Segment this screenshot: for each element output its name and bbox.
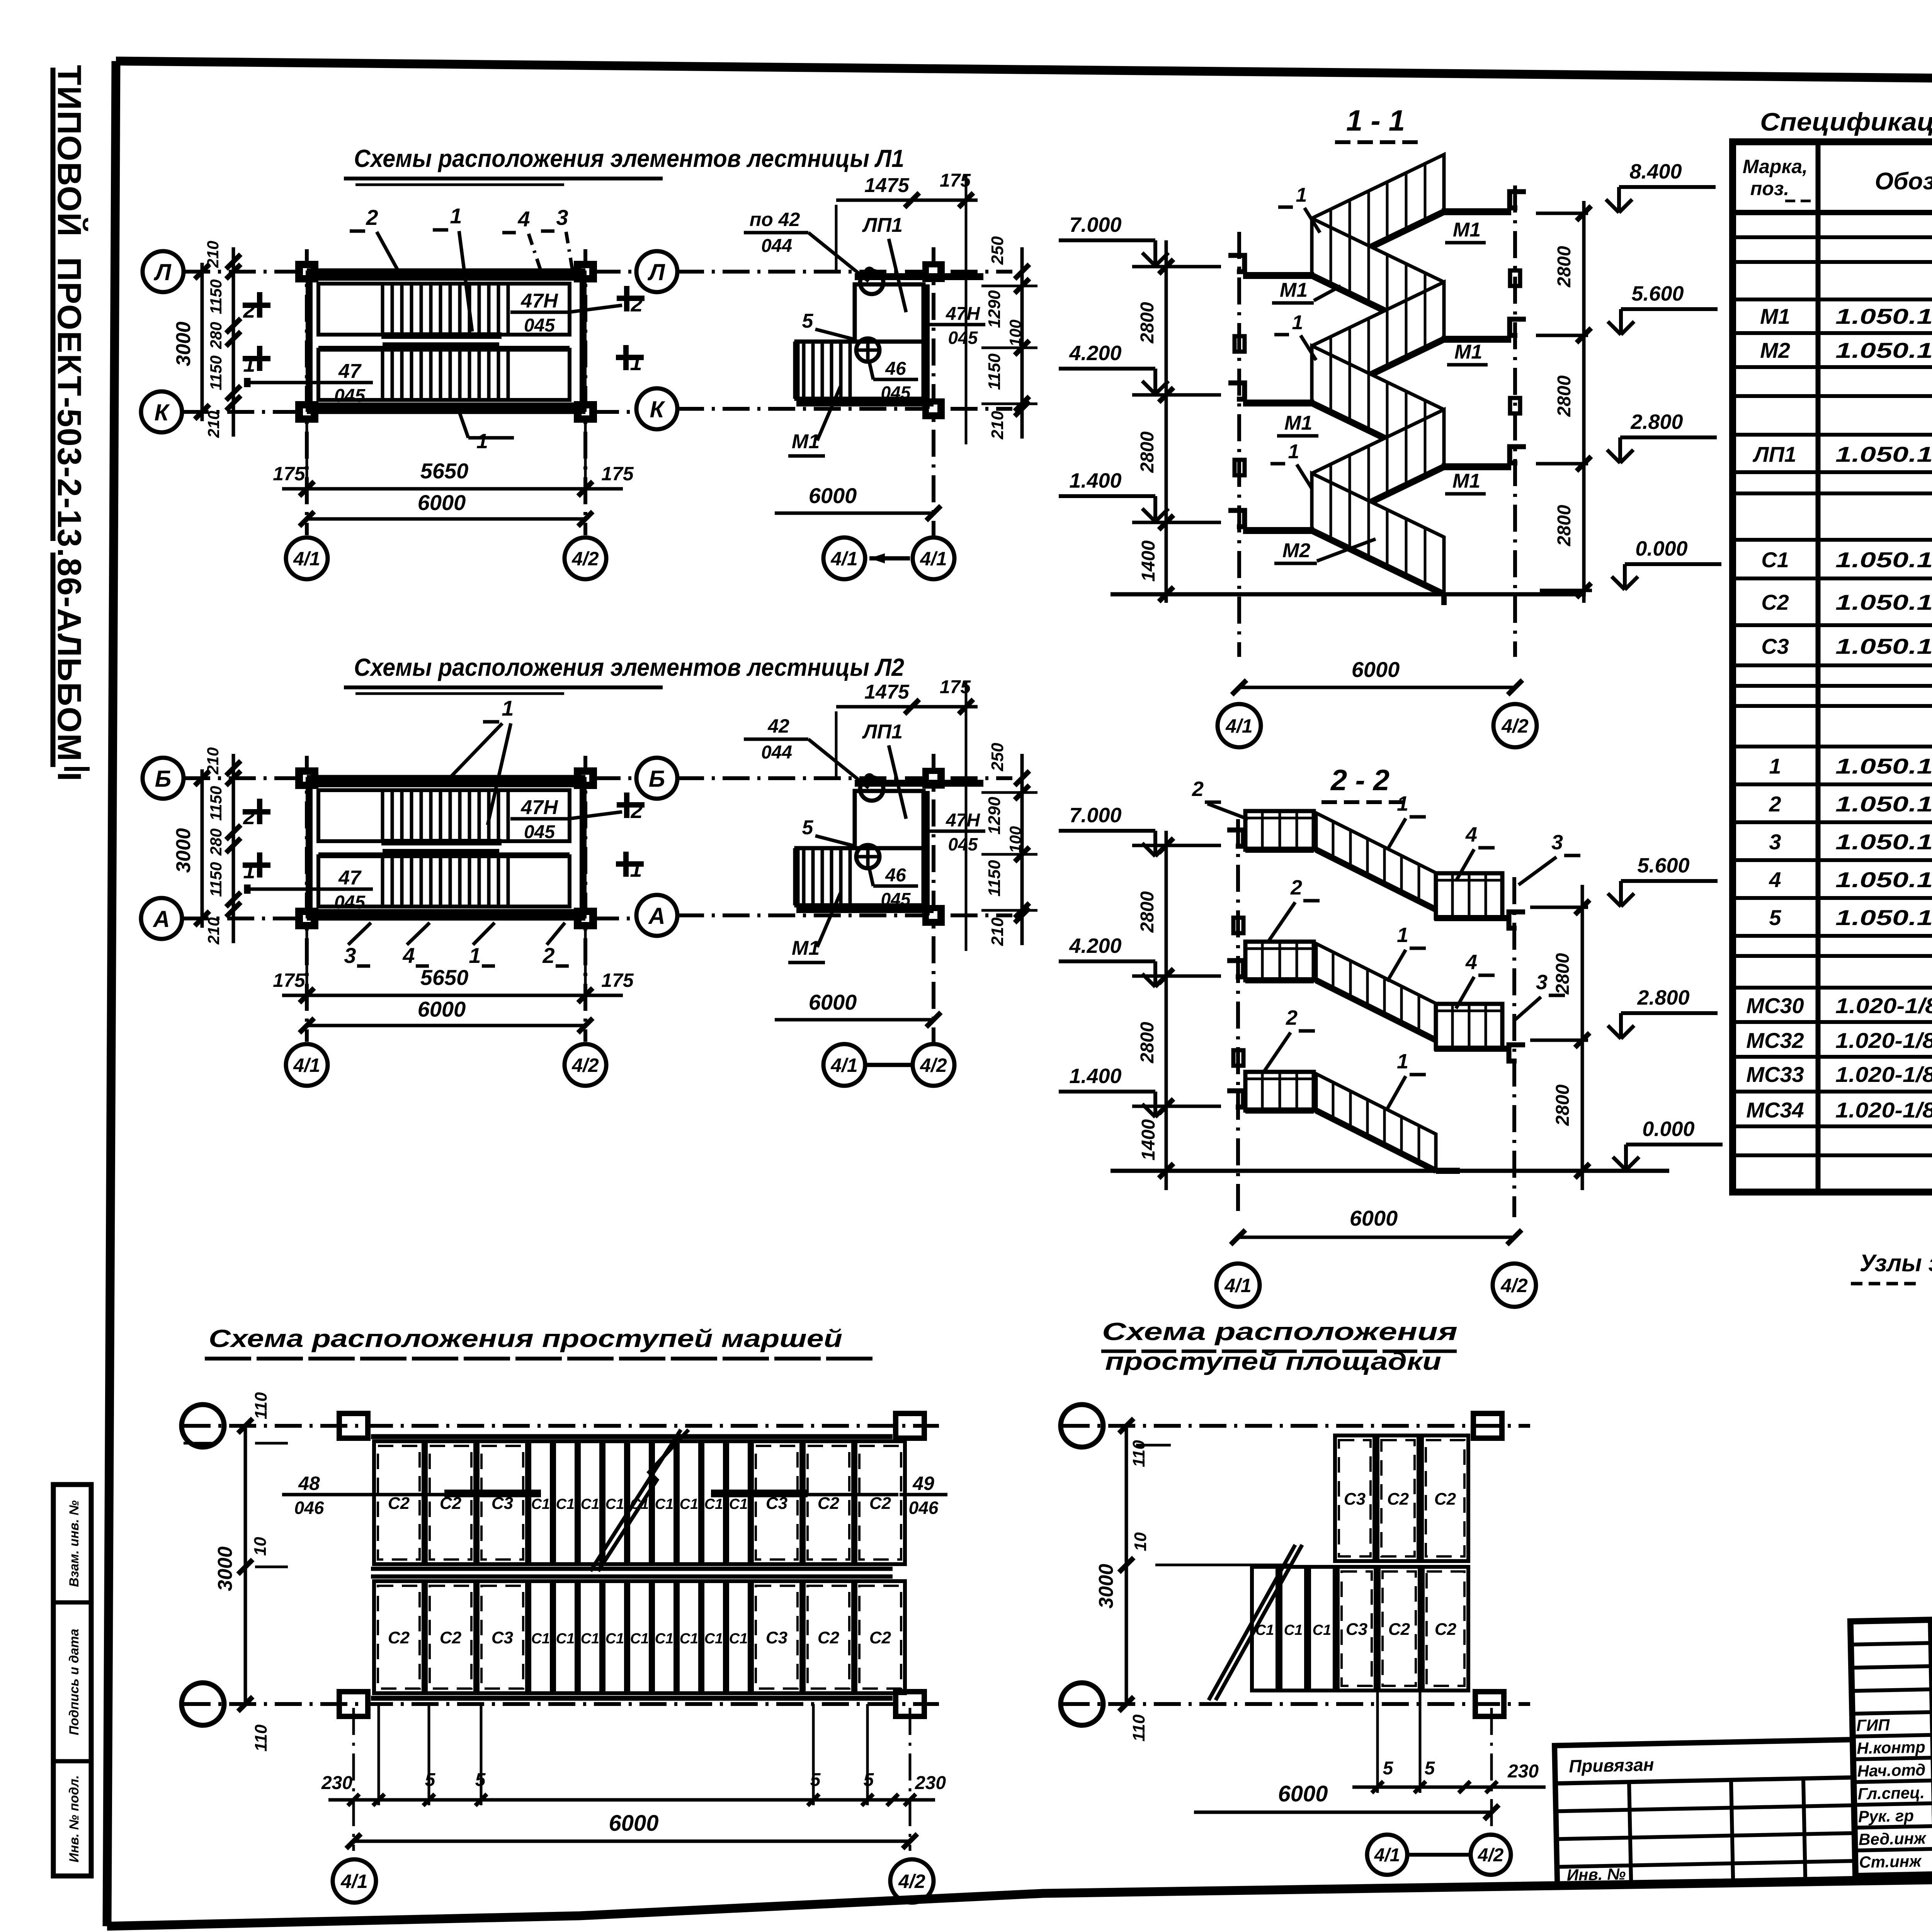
svg-text:МС33: МС33	[1746, 1062, 1804, 1087]
svg-text:045: 045	[881, 383, 911, 403]
svg-text:1: 1	[450, 204, 462, 228]
svg-text:2 - 2: 2 - 2	[1330, 764, 1389, 797]
section 1-1 dim 6000	[1239, 686, 1515, 689]
svg-text:4: 4	[1769, 867, 1781, 892]
bottom dim chain	[1352, 1786, 1546, 1789]
svg-text:Спецификация к схемам располож: Спецификация к схемам расположения элеме…	[1760, 107, 1932, 136]
svg-text:3000: 3000	[172, 321, 195, 366]
svg-text:7.000: 7.000	[1069, 804, 1121, 827]
axis circle 4/1	[1367, 1835, 1407, 1875]
stair plan L2 axis А line	[182, 917, 634, 920]
svg-text:5: 5	[864, 1770, 874, 1790]
svg-text:С1: С1	[531, 1496, 550, 1512]
stair plan L1 axis К line	[182, 410, 634, 414]
svg-text:47Н: 47Н	[946, 810, 980, 831]
landing plan L2 axis Б	[677, 776, 1012, 780]
svg-text:210: 210	[204, 917, 223, 945]
bottom dim 175-5650-175	[282, 994, 623, 997]
lower flight outline	[318, 350, 570, 400]
tread band top	[374, 1441, 423, 1564]
svg-text:175: 175	[601, 969, 634, 991]
flight M1 4.2-2.8 with railing	[1312, 346, 1444, 467]
svg-text:4/1: 4/1	[293, 1054, 320, 1076]
axis 4/1 vertical line	[1237, 232, 1241, 657]
svg-text:4/1: 4/1	[830, 548, 858, 570]
svg-text:1150: 1150	[207, 786, 225, 821]
svg-text:4: 4	[402, 943, 415, 968]
svg-text:1: 1	[630, 350, 642, 375]
svg-text:Взам. инв. №: Взам. инв. №	[67, 1500, 82, 1587]
node circle mid with cross	[856, 338, 879, 362]
svg-text:1.050.1-2 вып.2: 1.050.1-2 вып.2	[1835, 830, 1932, 854]
svg-text:230: 230	[321, 1773, 352, 1793]
svg-text:С1: С1	[1761, 548, 1789, 572]
svg-text:6000: 6000	[418, 490, 466, 515]
svg-text:М1: М1	[1280, 279, 1308, 301]
svg-text:230: 230	[915, 1773, 946, 1793]
svg-text:4/1: 4/1	[1374, 1845, 1400, 1866]
svg-text:ЛП1: ЛП1	[862, 721, 903, 743]
svg-text:1150: 1150	[207, 355, 225, 390]
svg-text:М1: М1	[1452, 470, 1480, 492]
tread band bottom	[374, 1581, 423, 1693]
svg-text:Узлы замаркированы по серии: Узлы замаркированы по серии 1.020-1/83 в…	[1860, 1250, 1932, 1277]
svg-text:2: 2	[1192, 777, 1204, 801]
svg-text:6000: 6000	[418, 997, 466, 1021]
svg-text:5: 5	[425, 1770, 436, 1790]
axis circles 4/1 arrow 4/1	[823, 537, 865, 579]
landings left	[1243, 272, 1314, 279]
svg-text:110: 110	[1129, 1714, 1148, 1742]
svg-text:210: 210	[988, 411, 1007, 440]
svg-text:2.800: 2.800	[1637, 986, 1689, 1009]
svg-text:5: 5	[1425, 1758, 1435, 1779]
svg-text:2: 2	[243, 298, 255, 322]
svg-text:4: 4	[1465, 823, 1477, 846]
axis circle 4/1 bottom	[286, 537, 328, 579]
svg-text:С1: С1	[704, 1496, 723, 1512]
svg-text:С1: С1	[605, 1496, 624, 1512]
svg-text:5650: 5650	[420, 965, 469, 990]
axis circle 4/2 (2-2)	[1493, 1264, 1536, 1307]
svg-text:С3: С3	[492, 1628, 513, 1647]
left dim chain 2800 2800 1400	[1165, 240, 1168, 603]
break line diagonal	[590, 1430, 681, 1571]
svg-text:47Н: 47Н	[520, 796, 558, 819]
svg-text:250: 250	[988, 236, 1007, 265]
svg-text:М1: М1	[792, 937, 820, 959]
svg-text:Гл.спец.: Гл.спец.	[1857, 1783, 1925, 1803]
svg-text:1.050.1-2 вып.2: 1.050.1-2 вып.2	[1835, 754, 1932, 778]
svg-text:280: 280	[207, 828, 225, 856]
svg-text:Марка,: Марка,	[1743, 156, 1808, 177]
axis line top	[1063, 1424, 1530, 1428]
upper flight treads	[381, 284, 384, 335]
svg-text:045: 045	[524, 315, 555, 336]
row 1 flight 7.0-5.6 with railings 2,1,4,3	[1245, 811, 1314, 850]
svg-text:С1: С1	[729, 1496, 748, 1512]
dim 3000 line	[201, 263, 204, 421]
svg-text:1.050.1-2 вып.2: 1.050.1-2 вып.2	[1835, 792, 1932, 816]
svg-text:6000: 6000	[809, 990, 857, 1014]
svg-text:2800: 2800	[1137, 302, 1158, 344]
axis circle top-left (blank)	[1061, 1405, 1103, 1447]
svg-text:2: 2	[542, 943, 554, 968]
svg-text:1.050.1-2 вып.1: 1.050.1-2 вып.1	[1835, 304, 1932, 328]
svg-text:Ст.инж: Ст.инж	[1859, 1852, 1922, 1871]
svg-text:С2: С2	[818, 1628, 840, 1647]
svg-text:4.200: 4.200	[1069, 342, 1121, 365]
svg-text:3: 3	[556, 205, 568, 230]
svg-text:100: 100	[1006, 826, 1024, 853]
svg-text:10: 10	[251, 1537, 270, 1556]
column marks	[925, 770, 942, 786]
svg-text:Рук. гр: Рук. гр	[1858, 1806, 1914, 1826]
svg-text:4/2: 4/2	[571, 1054, 599, 1076]
svg-text:1.020-1/83 вып. 6-1: 1.020-1/83 вып. 6-1	[1835, 1028, 1932, 1053]
svg-text:МС34: МС34	[1746, 1098, 1804, 1122]
svg-text:2: 2	[630, 292, 643, 316]
svg-text:С1: С1	[655, 1631, 674, 1647]
wall right thick	[922, 284, 930, 409]
extension verticals	[1376, 1692, 1379, 1793]
extension verticals below	[378, 1704, 380, 1805]
svg-text:044: 044	[761, 742, 792, 763]
svg-text:К: К	[650, 396, 666, 422]
svg-text:1.050.1-2 вып.2: 1.050.1-2 вып.2	[1835, 867, 1932, 892]
stair plan L1 axis Л line	[183, 270, 634, 274]
top wall thick	[855, 780, 983, 787]
svg-text:1: 1	[243, 859, 255, 883]
section mark 2 left	[243, 809, 270, 815]
svg-text:3: 3	[344, 943, 356, 968]
svg-text:1: 1	[476, 430, 488, 453]
svg-text:2: 2	[1286, 1006, 1298, 1029]
section mark 2 right	[617, 296, 645, 301]
flight M1 4.2-5.6 with railing 1	[1312, 282, 1444, 403]
left dim chain line	[232, 754, 235, 943]
axis 4/2 vertical	[932, 754, 935, 1044]
upper flight outline	[318, 284, 570, 335]
svg-text:2800: 2800	[1137, 891, 1158, 933]
svg-text:5650: 5650	[420, 459, 469, 483]
svg-text:поз.: поз.	[1750, 178, 1789, 199]
svg-text:1.050.1-2 вып.1: 1.050.1-2 вып.1	[1835, 442, 1932, 466]
svg-text:Обозначение: Обозначение	[1875, 168, 1932, 195]
svg-text:47Н: 47Н	[946, 304, 980, 324]
svg-text:С3: С3	[1761, 634, 1789, 658]
upper flight outline	[318, 790, 570, 841]
svg-text:1: 1	[1397, 1050, 1408, 1073]
svg-text:1.020-1/83 вып. 6-1: 1.020-1/83 вып. 6-1	[1835, 1098, 1932, 1122]
svg-text:1: 1	[1769, 754, 1781, 778]
svg-text:М1: М1	[1284, 412, 1312, 434]
svg-text:110: 110	[252, 1724, 270, 1752]
right dim chain 2800x3	[1582, 201, 1586, 603]
svg-text:044: 044	[761, 236, 792, 256]
axis circle 4/1 bottom	[286, 1044, 328, 1086]
svg-text:1150: 1150	[207, 862, 225, 897]
landing plan L1 axis Л	[677, 270, 1012, 274]
svg-text:49: 49	[912, 1473, 934, 1494]
svg-text:С2: С2	[1434, 1490, 1456, 1509]
svg-text:С1: С1	[581, 1496, 600, 1512]
svg-text:К: К	[155, 400, 170, 425]
svg-text:1.020-1/83 вып.7-1: 1.020-1/83 вып.7-1	[1835, 993, 1932, 1018]
section mark 2 right	[617, 802, 645, 808]
svg-text:С3: С3	[766, 1628, 787, 1647]
svg-text:М2: М2	[1282, 539, 1310, 562]
svg-text:1400: 1400	[1138, 540, 1159, 582]
row 2 flight 4.2-2.8 with railings	[1245, 942, 1314, 980]
svg-text:ТИПОВОЙ ПРОЕКТ-503-2-13.86-АЛ: ТИПОВОЙ ПРОЕКТ-503-2-13.86-АЛЬБОМ I	[51, 65, 88, 782]
flight with treads	[796, 848, 923, 905]
svg-text:6000: 6000	[1350, 1206, 1398, 1230]
axis circle bottom-left (blank)	[182, 1683, 224, 1725]
top wall thick	[855, 273, 983, 280]
svg-text:С2: С2	[1761, 590, 1789, 614]
section mark 2 left	[243, 303, 270, 308]
svg-text:4/1: 4/1	[830, 1054, 858, 1076]
section mark 1 left	[243, 862, 270, 868]
flight M1 7.0-5.6 with railing	[1312, 218, 1444, 339]
svg-text:1475: 1475	[864, 681, 910, 703]
svg-text:5: 5	[802, 816, 814, 839]
svg-text:1.400: 1.400	[1069, 469, 1121, 492]
landing plan L2 axis А	[677, 913, 1012, 917]
axis small squares	[1235, 336, 1245, 352]
svg-text:2: 2	[243, 804, 255, 829]
svg-text:1.050.1-2 вып.1: 1.050.1-2 вып.1	[1835, 590, 1932, 614]
svg-text:5: 5	[475, 1770, 486, 1790]
svg-text:4/2: 4/2	[571, 548, 599, 570]
svg-text:1400: 1400	[1138, 1119, 1159, 1160]
svg-text:А: А	[152, 906, 170, 932]
left margin stamp strip	[53, 1485, 91, 1876]
svg-text:2: 2	[1769, 792, 1781, 816]
svg-text:7.000: 7.000	[1069, 213, 1121, 236]
axis circle 4/2 bottom	[565, 537, 606, 579]
svg-text:С2: С2	[1387, 1490, 1409, 1509]
svg-text:045: 045	[334, 386, 366, 406]
dim 3000 line	[201, 769, 204, 928]
svg-text:1150: 1150	[985, 353, 1004, 390]
svg-text:2800: 2800	[1553, 1084, 1573, 1126]
stair well walls	[307, 775, 585, 779]
svg-text:6000: 6000	[809, 483, 857, 508]
svg-text:С1: С1	[581, 1631, 600, 1647]
axis circle bottom-left (blank)	[1061, 1683, 1103, 1725]
signature table grid	[1850, 1616, 1932, 1876]
svg-text:2800: 2800	[1554, 246, 1575, 287]
right dim chain	[1020, 754, 1024, 945]
column marks	[298, 264, 316, 280]
node circle mid with cross	[856, 845, 879, 868]
svg-text:210: 210	[988, 917, 1007, 946]
svg-text:2800: 2800	[1554, 505, 1575, 546]
svg-text:4/1: 4/1	[340, 1871, 368, 1892]
vertical album title TIPOVOY PROEKT	[51, 65, 88, 782]
svg-text:230: 230	[1507, 1761, 1539, 1782]
svg-text:С2: С2	[818, 1494, 840, 1513]
axis 4/2 vertical	[932, 247, 935, 537]
svg-text:2: 2	[1290, 876, 1302, 899]
svg-text:46: 46	[885, 359, 906, 379]
svg-text:1: 1	[1397, 792, 1408, 815]
section mark 1 right	[616, 355, 644, 360]
axis line 4/1 vertical	[305, 249, 309, 535]
axis circle 4/2	[1471, 1835, 1511, 1875]
svg-text:Схемы расположения элементов: Схемы расположения элементов лестницы Л2	[354, 653, 904, 681]
ground line 0.000 section 2-2	[1111, 1169, 1669, 1173]
svg-text:045: 045	[524, 822, 555, 842]
bottom dim 6000	[307, 517, 585, 521]
svg-text:5: 5	[802, 310, 814, 332]
lower flight treads	[381, 856, 384, 906]
privyazan block	[1554, 1740, 1855, 1884]
svg-text:1: 1	[469, 943, 481, 968]
svg-text:210: 210	[204, 411, 223, 438]
svg-text:4/2: 4/2	[898, 1871, 925, 1892]
svg-text:МС30: МС30	[1746, 993, 1804, 1018]
svg-text:5.600: 5.600	[1631, 282, 1684, 305]
svg-text:Схема расположения проступей: Схема расположения проступей маршей	[209, 1325, 842, 1352]
axis circle К	[141, 391, 182, 432]
dim 1475/175	[836, 705, 978, 709]
landing slab LP1	[855, 791, 923, 848]
axis 4/2 vertical line	[1513, 185, 1517, 657]
svg-text:1290: 1290	[985, 797, 1004, 835]
flight M1 7.0-8.4 with railing 1	[1312, 155, 1444, 276]
axis circle Б	[143, 758, 184, 799]
svg-text:175: 175	[601, 463, 634, 485]
axis circle 4/2	[890, 1859, 934, 1903]
svg-text:С1: С1	[655, 1496, 674, 1512]
svg-text:С1: С1	[1313, 1622, 1332, 1638]
node circle top	[860, 271, 883, 294]
svg-text:8.400: 8.400	[1629, 160, 1682, 183]
svg-text:1: 1	[1292, 311, 1303, 334]
svg-text:1.020-1/83 вып. 6-1: 1.020-1/83 вып. 6-1	[1835, 1062, 1932, 1087]
section mark 1 left	[243, 356, 270, 361]
axis brackets left	[1228, 255, 1245, 272]
svg-text:Инв. №: Инв. №	[1566, 1865, 1626, 1884]
svg-text:С2: С2	[1388, 1620, 1410, 1639]
axis line bottom	[1063, 1702, 1530, 1706]
axis brackets left 2-2	[1227, 830, 1243, 846]
svg-text:47: 47	[338, 867, 362, 889]
svg-text:4/1: 4/1	[920, 548, 947, 570]
dim 3000 left	[244, 1426, 247, 1704]
svg-text:3000: 3000	[1095, 1564, 1117, 1609]
lower flight treads	[381, 350, 384, 400]
svg-text:С1: С1	[729, 1631, 748, 1647]
svg-text:2800: 2800	[1137, 1022, 1158, 1063]
svg-text:2.800: 2.800	[1630, 410, 1683, 434]
svg-text:С1: С1	[630, 1631, 649, 1647]
svg-text:0.000: 0.000	[1642, 1117, 1694, 1141]
svg-text:046: 046	[294, 1498, 324, 1518]
svg-text:Подпись и дата: Подпись и дата	[67, 1629, 82, 1735]
svg-text:110: 110	[252, 1392, 270, 1419]
svg-text:1: 1	[1296, 184, 1307, 206]
svg-text:4: 4	[517, 207, 530, 231]
svg-text:М1: М1	[792, 430, 820, 453]
svg-text:Нач.отд: Нач.отд	[1857, 1760, 1926, 1780]
left dim chain 2-2	[1165, 831, 1168, 1190]
svg-text:1.050.1-2 вып.1: 1.050.1-2 вып.1	[1835, 548, 1932, 572]
svg-text:5: 5	[810, 1770, 821, 1790]
svg-text:1150: 1150	[207, 279, 225, 314]
svg-text:С1: С1	[704, 1631, 723, 1647]
bottom dim 175-5650-175	[282, 487, 623, 491]
svg-text:С2: С2	[1435, 1620, 1457, 1639]
axis circles 4/1 4/2	[823, 1044, 865, 1086]
svg-text:045: 045	[881, 889, 911, 909]
svg-text:47Н: 47Н	[520, 290, 558, 312]
svg-text:045: 045	[948, 328, 978, 348]
axis circle 4/2	[1493, 704, 1537, 747]
section mark 1 right	[616, 861, 644, 867]
svg-text:6000: 6000	[609, 1811, 658, 1836]
svg-text:С2: С2	[388, 1494, 410, 1513]
svg-text:С2: С2	[440, 1628, 462, 1647]
svg-text:С3: С3	[1344, 1490, 1366, 1509]
row 3 flight 1.4-0.0 with railings	[1245, 1072, 1314, 1111]
svg-text:1290: 1290	[985, 290, 1004, 328]
svg-text:045: 045	[334, 892, 366, 913]
svg-text:Б: Б	[649, 766, 665, 792]
upper flight treads	[381, 790, 384, 841]
svg-text:4/1: 4/1	[1225, 715, 1253, 737]
svg-text:М1: М1	[1760, 304, 1790, 328]
stair well walls	[307, 269, 585, 273]
svg-text:Н.контр: Н.контр	[1857, 1738, 1925, 1757]
column marks	[339, 1413, 368, 1438]
axis circle А	[141, 898, 182, 939]
svg-text:4/2: 4/2	[1500, 1275, 1528, 1296]
right dim chain	[1020, 247, 1024, 439]
svg-text:1.400: 1.400	[1069, 1065, 1121, 1088]
axis circle 4/1 (2-2)	[1216, 1264, 1260, 1307]
landing edge thick bars	[381, 839, 502, 845]
svg-text:1475: 1475	[864, 174, 910, 197]
svg-text:1.050.1-2 вып.1: 1.050.1-2 вып.1	[1835, 338, 1932, 362]
svg-text:1: 1	[243, 352, 255, 376]
svg-text:1: 1	[1397, 923, 1408, 947]
svg-text:3: 3	[1551, 831, 1563, 854]
section 2-2 dim 6000	[1238, 1236, 1514, 1239]
svg-text:М2: М2	[1760, 338, 1790, 362]
flight M1 1.4-2.8 with railing 1	[1312, 410, 1444, 531]
dim 6000 bottom	[775, 1018, 934, 1022]
svg-text:МС32: МС32	[1746, 1028, 1804, 1053]
svg-text:42: 42	[767, 715, 789, 737]
svg-text:Вед.инж: Вед.инж	[1859, 1829, 1927, 1849]
landings right	[1442, 208, 1511, 215]
svg-text:1.050.1-2 вып.2: 1.050.1-2 вып.2	[1835, 905, 1932, 930]
svg-text:0.000: 0.000	[1635, 537, 1687, 560]
svg-text:1.050.1-2 вып.1: 1.050.1-2 вып.1	[1835, 634, 1932, 658]
svg-text:1: 1	[630, 857, 642, 881]
svg-text:1: 1	[502, 696, 514, 720]
dim 6000 bottom	[354, 1840, 910, 1843]
svg-text:46: 46	[885, 865, 906, 886]
svg-text:5.600: 5.600	[1637, 854, 1689, 877]
svg-text:280: 280	[207, 322, 225, 349]
tread field outline	[371, 1434, 893, 1439]
axis line 4/2 vertical	[583, 249, 587, 535]
